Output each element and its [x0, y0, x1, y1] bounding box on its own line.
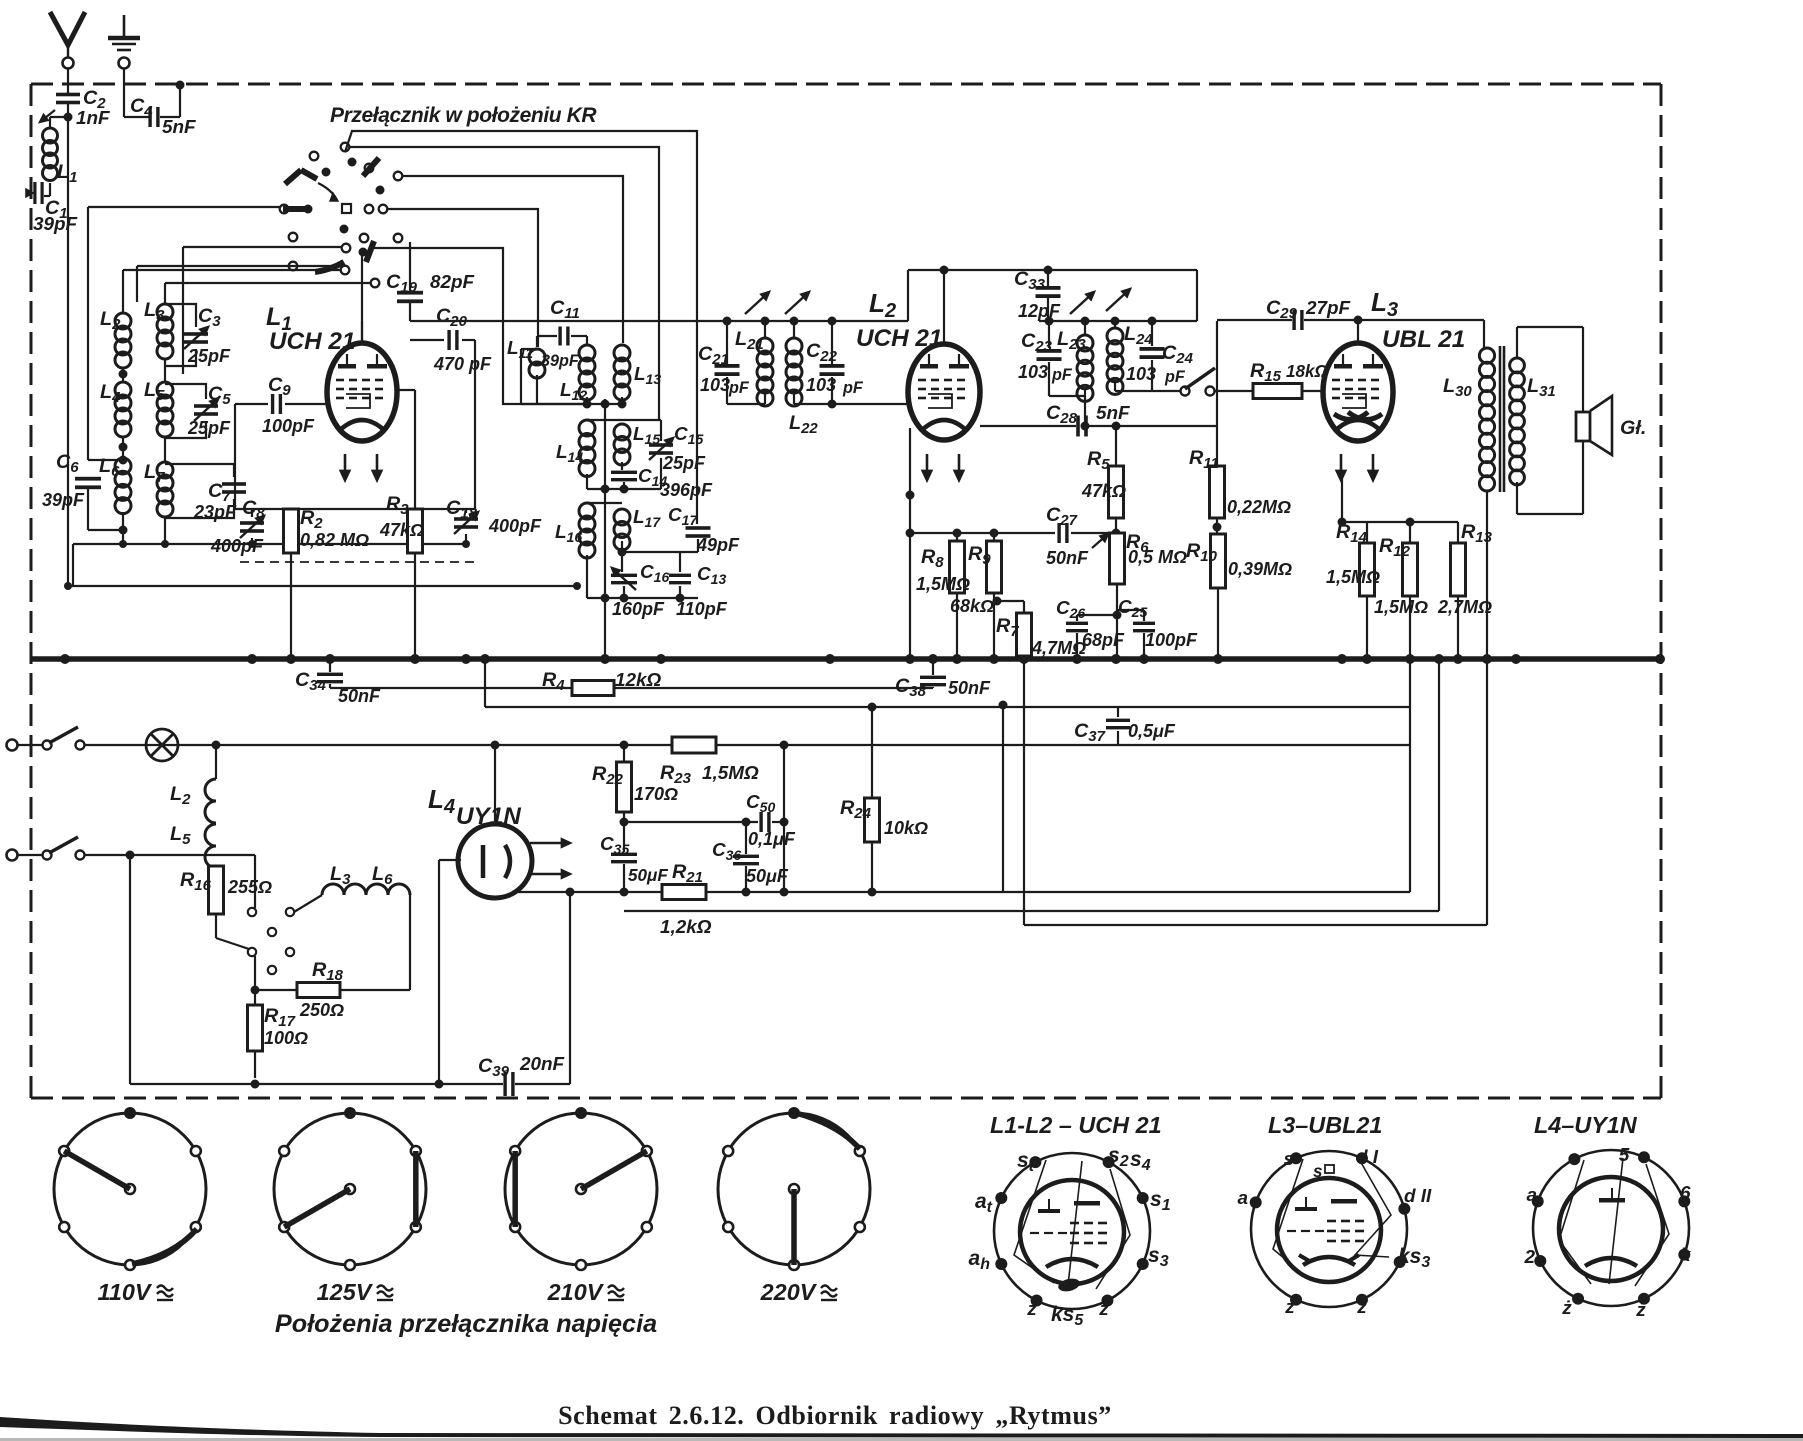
svg-text:L1-L2 – UCH 21: L1-L2 – UCH 21	[990, 1112, 1162, 1138]
svg-text:ż: ż	[1561, 1298, 1572, 1319]
svg-text:L4–UY1N: L4–UY1N	[1534, 1112, 1638, 1138]
svg-text:170Ω: 170Ω	[634, 784, 678, 804]
svg-text:UBL 21: UBL 21	[1382, 326, 1465, 353]
svg-text:82pF: 82pF	[430, 272, 475, 293]
svg-text:396pF: 396pF	[660, 480, 713, 500]
svg-text:400pF: 400pF	[488, 516, 542, 536]
svg-text:1nF: 1nF	[76, 108, 110, 129]
svg-text:1,5MΩ: 1,5MΩ	[916, 574, 970, 594]
svg-text:0,39MΩ: 0,39MΩ	[1228, 559, 1292, 579]
svg-text:0,5 MΩ: 0,5 MΩ	[1128, 547, 1187, 567]
svg-text:d I: d I	[1356, 1147, 1379, 1168]
svg-text:Przełącznik w położeniu KR: Przełącznik w położeniu KR	[330, 104, 597, 127]
svg-text:2,7MΩ: 2,7MΩ	[1437, 597, 1492, 617]
svg-text:400pF: 400pF	[210, 536, 264, 556]
svg-text:ż: ż	[1026, 1299, 1037, 1320]
svg-text:47kΩ: 47kΩ	[1081, 481, 1126, 501]
svg-text:50nF: 50nF	[338, 686, 381, 706]
svg-text:5nF: 5nF	[1096, 403, 1130, 424]
svg-text:pF: pF	[1051, 366, 1073, 384]
svg-text:0,22MΩ: 0,22MΩ	[1227, 497, 1291, 517]
svg-text:25pF: 25pF	[187, 418, 231, 438]
svg-text:Gł.: Gł.	[1620, 417, 1646, 439]
svg-text:100pF: 100pF	[262, 416, 315, 436]
svg-text:ż: ż	[1284, 1297, 1295, 1318]
svg-text:39pF: 39pF	[42, 490, 85, 510]
svg-text:ż: ż	[1098, 1299, 1109, 1320]
svg-text:k: k	[1680, 1245, 1692, 1266]
svg-text:103: 103	[700, 375, 730, 395]
svg-text:103: 103	[1126, 364, 1156, 384]
svg-text:d II: d II	[1404, 1186, 1432, 1207]
svg-text:39pF: 39pF	[541, 352, 580, 370]
svg-text:220V: 220V	[760, 1279, 818, 1305]
svg-text:25pF: 25pF	[662, 453, 706, 473]
svg-text:Schemat 2.6.12. Odbiornik radi: Schemat 2.6.12. Odbiornik radiowy „Rytmu…	[558, 1401, 1112, 1430]
svg-text:10kΩ: 10kΩ	[884, 818, 928, 838]
svg-text:255Ω: 255Ω	[227, 877, 272, 897]
svg-text:0,5μF: 0,5μF	[1128, 721, 1176, 741]
svg-text:Położenia przełącznika napię: Położenia przełącznika napięcia	[275, 1310, 657, 1338]
svg-text:0,1μF: 0,1μF	[748, 829, 796, 849]
svg-text:23pF: 23pF	[193, 502, 237, 522]
svg-text:125V: 125V	[317, 1279, 374, 1305]
svg-text:50nF: 50nF	[948, 678, 991, 698]
svg-text:0,82 MΩ: 0,82 MΩ	[300, 530, 369, 550]
svg-text:ż: ż	[1356, 1297, 1367, 1318]
svg-text:a: a	[1526, 1185, 1537, 1206]
svg-text:50nF: 50nF	[1046, 548, 1089, 568]
svg-text:160pF: 160pF	[612, 599, 665, 619]
svg-text:1,2kΩ: 1,2kΩ	[660, 917, 712, 938]
svg-text:210V: 210V	[547, 1279, 605, 1305]
svg-text:1,5MΩ: 1,5MΩ	[1326, 567, 1380, 587]
svg-text:12kΩ: 12kΩ	[615, 670, 662, 691]
svg-text:5: 5	[1619, 1145, 1630, 1166]
svg-text:ż: ż	[1635, 1300, 1646, 1321]
svg-text:47kΩ: 47kΩ	[379, 520, 424, 540]
svg-text:27pF: 27pF	[1305, 298, 1351, 319]
svg-text:250Ω: 250Ω	[299, 1000, 344, 1020]
svg-text:5nF: 5nF	[162, 117, 196, 138]
svg-text:6: 6	[1680, 1183, 1691, 1204]
svg-text:1,5MΩ: 1,5MΩ	[1374, 597, 1428, 617]
svg-text:470 pF: 470 pF	[433, 354, 492, 374]
svg-text:103: 103	[1018, 362, 1048, 382]
svg-text:pF: pF	[842, 379, 864, 397]
svg-text:68pF: 68pF	[1082, 630, 1125, 650]
svg-text:39pF: 39pF	[33, 214, 78, 235]
svg-text:25pF: 25pF	[187, 346, 231, 366]
svg-text:pF: pF	[1164, 368, 1186, 386]
svg-text:pF: pF	[728, 379, 750, 397]
svg-text:L3–UBL21: L3–UBL21	[1268, 1112, 1382, 1138]
svg-text:103: 103	[806, 375, 836, 395]
svg-text:50μF: 50μF	[628, 866, 668, 885]
svg-text:100Ω: 100Ω	[264, 1028, 308, 1048]
svg-text:110pF: 110pF	[676, 599, 728, 619]
svg-text:12pF: 12pF	[1018, 301, 1061, 321]
svg-text:49pF: 49pF	[696, 535, 740, 555]
svg-text:100pF: 100pF	[1145, 630, 1198, 650]
svg-text:68kΩ: 68kΩ	[950, 596, 994, 616]
svg-text:20nF: 20nF	[519, 1054, 565, 1075]
svg-text:50μF: 50μF	[746, 866, 789, 886]
svg-text:110V: 110V	[98, 1279, 153, 1305]
svg-text:1,5MΩ: 1,5MΩ	[702, 763, 759, 784]
svg-text:s: s	[1313, 1162, 1323, 1181]
svg-text:a: a	[1237, 1188, 1248, 1209]
svg-text:s: s	[1283, 1149, 1294, 1170]
svg-text:2: 2	[1523, 1247, 1535, 1268]
